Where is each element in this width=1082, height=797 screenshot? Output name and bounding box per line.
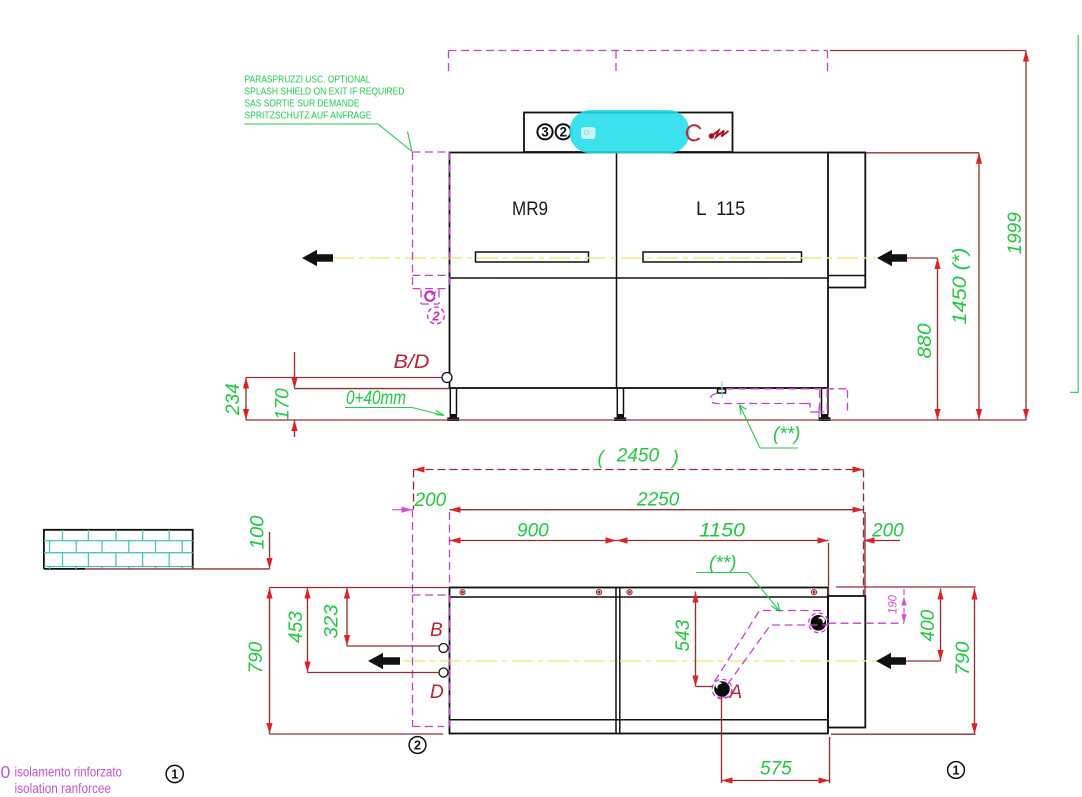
wall face line — [85, 568, 270, 570]
cyan highlight blob — [570, 110, 690, 154]
svg-text:): ) — [671, 448, 679, 469]
svg-text:SPRITZSCHUTZ AUF ANFRAGE: SPRITZSCHUTZ AUF ANFRAGE — [245, 111, 372, 122]
machine body — [450, 153, 829, 389]
svg-text:115: 115 — [716, 199, 745, 220]
floor line — [246, 419, 1026, 421]
svg-text:1: 1 — [953, 764, 960, 778]
dim 1450 (*) — [866, 153, 982, 420]
dim 200 right — [864, 512, 905, 596]
dim 1999 — [830, 51, 1029, 421]
plan exit table — [828, 596, 865, 728]
green note text — [245, 75, 405, 122]
dim 400 — [906, 589, 944, 662]
leg right — [819, 388, 831, 421]
svg-text:200: 200 — [414, 490, 447, 511]
shield ext dashed verticals — [413, 510, 450, 596]
svg-text:0: 0 — [1, 762, 11, 782]
plan inner top line — [450, 596, 829, 598]
red scribble — [709, 133, 715, 139]
(**) leader — [740, 405, 799, 448]
pipe run dashed (plan) — [715, 611, 905, 685]
note leader — [245, 124, 413, 152]
flow arrow right (elevation) — [877, 250, 907, 266]
dim 2250 — [450, 490, 864, 513]
svg-text:L: L — [696, 199, 707, 220]
svg-text:isolamento rinforzato: isolamento rinforzato — [15, 765, 123, 780]
dim 575 — [722, 696, 830, 784]
svg-text:790: 790 — [246, 641, 267, 673]
svg-text:isolation ranforcee: isolation ranforcee — [15, 781, 112, 796]
svg-text:900: 900 — [517, 521, 549, 542]
dim 100 — [248, 515, 273, 569]
centerline elevation — [333, 257, 876, 259]
conveyor slot left — [476, 252, 589, 262]
deck line — [450, 277, 829, 279]
drain stub — [718, 389, 726, 393]
B/D level line — [246, 377, 442, 379]
svg-text:2450: 2450 — [616, 446, 660, 467]
circled 2 — [556, 124, 571, 139]
screw symbols — [460, 590, 817, 595]
right side: bottom ext red line — [831, 733, 976, 735]
plan inner bottom line — [450, 719, 829, 721]
drain pipe dashed (elevation) — [711, 389, 848, 413]
splash shield dashed box (elevation) — [413, 152, 450, 289]
svg-text:2250: 2250 — [636, 490, 680, 511]
svg-text:1: 1 — [171, 768, 178, 782]
valve top-right — [809, 613, 829, 633]
svg-text:SPLASH SHIELD ON EXIT IF REQUI: SPLASH SHIELD ON EXIT IF REQUIRED — [245, 87, 405, 98]
svg-text:234: 234 — [223, 383, 244, 416]
exit tunnel — [828, 153, 865, 288]
conveyor slot right — [643, 252, 802, 262]
dim 323 — [322, 588, 440, 647]
dim 1150 — [617, 521, 829, 544]
svg-text:(: ( — [598, 448, 606, 469]
svg-text:543: 543 — [673, 619, 694, 651]
svg-text:PARASPRUZZI USC. OPTIONAL: PARASPRUZZI USC. OPTIONAL — [245, 75, 371, 86]
flow arrow right (plan) — [876, 653, 906, 669]
plan divider — [615, 588, 617, 734]
plan top ext line — [270, 587, 450, 589]
section divider — [616, 153, 618, 389]
plan body — [450, 588, 829, 734]
splash shield dashed box (plan) — [413, 595, 450, 727]
dim 790 left — [246, 588, 273, 735]
svg-text:575: 575 — [760, 759, 792, 780]
circled 2 dashed (shield item) — [428, 307, 445, 324]
B port — [439, 644, 448, 653]
circled 3 — [537, 124, 552, 139]
circled 1 (right) — [948, 762, 965, 779]
svg-text:400: 400 — [918, 609, 939, 641]
svg-text:2: 2 — [431, 309, 440, 324]
svg-text:453: 453 — [286, 611, 307, 643]
svg-text:1150: 1150 — [699, 521, 745, 542]
flow arrow left (plan) — [368, 653, 400, 669]
svg-text:D: D — [430, 682, 444, 703]
machine-bottom level line — [295, 388, 450, 390]
hood-open dashed line — [449, 51, 828, 73]
flow arrow left (elevation) — [302, 250, 333, 266]
svg-text:1999: 1999 — [1005, 212, 1026, 255]
circled 1 (left) — [166, 765, 183, 782]
dim 880 — [907, 258, 941, 420]
plan bottom ext line — [270, 733, 444, 735]
svg-text:170: 170 — [273, 388, 294, 420]
top edge over exit tunnel — [828, 152, 865, 154]
B/D port circle — [442, 373, 452, 383]
leg left — [447, 388, 459, 421]
svg-text:790: 790 — [953, 641, 974, 675]
dim 790 right — [953, 589, 978, 735]
dim 543 — [673, 592, 713, 687]
svg-text:2: 2 — [414, 739, 421, 753]
svg-text:B: B — [430, 620, 443, 641]
svg-text:200: 200 — [871, 521, 904, 542]
dim 234 — [223, 378, 249, 421]
dim 200 left (magenta) — [392, 490, 473, 513]
insulation note magenta — [1, 762, 123, 796]
pipe cross marker — [814, 407, 825, 418]
dim (2450) — [414, 446, 864, 596]
right side: top ext red line — [836, 586, 976, 588]
svg-text:100: 100 — [248, 515, 269, 549]
clamp symbol — [425, 291, 435, 300]
ext line body right edge — [828, 543, 830, 595]
dim 453 — [286, 588, 439, 673]
dim 190 (magenta) — [888, 589, 907, 623]
dim 900 — [450, 521, 617, 544]
svg-text:(**): (**) — [709, 553, 736, 574]
valve A — [712, 679, 742, 703]
svg-text:2: 2 — [559, 125, 567, 140]
svg-text:(**): (**) — [773, 424, 800, 445]
leg middle — [614, 388, 626, 421]
svg-text:3: 3 — [541, 125, 549, 140]
svg-text:B/D: B/D — [394, 352, 430, 373]
svg-text:0+40mm: 0+40mm — [346, 388, 406, 409]
svg-text:A: A — [729, 682, 743, 703]
wall section — [44, 530, 193, 569]
dim 170 — [273, 352, 298, 437]
hood box — [524, 113, 733, 153]
svg-text:MR9: MR9 — [512, 199, 548, 220]
svg-text:190: 190 — [888, 594, 900, 614]
D port — [439, 668, 448, 677]
green frame right — [1070, 35, 1078, 392]
shield clamp box — [421, 290, 439, 305]
svg-text:1450 (*): 1450 (*) — [950, 248, 971, 325]
svg-text:880: 880 — [915, 323, 936, 358]
svg-text:SAS SORTIE SUR DEMANDE: SAS SORTIE SUR DEMANDE — [245, 99, 360, 110]
red letter C — [687, 125, 701, 140]
circled 2 (plan ref) — [409, 737, 426, 754]
svg-text:323: 323 — [322, 604, 343, 638]
drain stub centerline tick — [721, 381, 723, 399]
centerline plan — [404, 660, 876, 662]
